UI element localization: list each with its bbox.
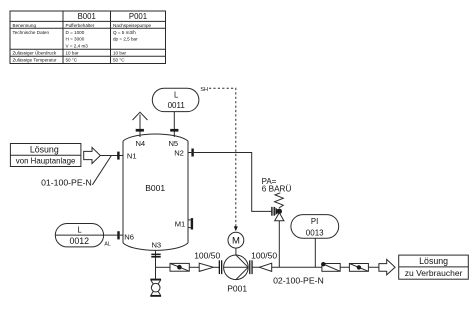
svg-text:0011: 0011	[168, 101, 186, 110]
svg-text:B001: B001	[145, 183, 165, 193]
svg-text:10 bar: 10 bar	[66, 51, 79, 56]
svg-text:01-100-PE-N: 01-100-PE-N	[41, 177, 92, 187]
svg-text:100/50: 100/50	[251, 251, 277, 261]
svg-text:B001: B001	[78, 12, 96, 21]
svg-text:50 °C: 50 °C	[113, 58, 125, 63]
svg-text:N5: N5	[168, 139, 178, 148]
svg-text:AL: AL	[104, 242, 110, 248]
svg-text:Lösung: Lösung	[30, 145, 59, 155]
svg-text:PI: PI	[311, 217, 318, 226]
svg-text:N2: N2	[174, 149, 184, 158]
svg-text:L: L	[174, 91, 179, 100]
svg-text:Pufferbehälter: Pufferbehälter	[66, 23, 95, 28]
svg-text:Technische Daten: Technische Daten	[13, 30, 50, 35]
svg-text:100/50: 100/50	[194, 251, 220, 261]
svg-text:M: M	[232, 236, 240, 247]
svg-text:N6: N6	[124, 233, 134, 242]
svg-text:Q = 5 m3/h: Q = 5 m3/h	[113, 30, 136, 35]
svg-text:SH: SH	[200, 87, 208, 93]
svg-text:Zulässiger Überdruck: Zulässiger Überdruck	[13, 50, 57, 56]
svg-text:Lösung: Lösung	[419, 256, 448, 266]
svg-text:0013: 0013	[306, 228, 324, 237]
svg-text:0012: 0012	[70, 236, 90, 246]
svg-text:N1: N1	[127, 152, 137, 161]
svg-text:Benennung: Benennung	[13, 23, 37, 28]
svg-text:von Hauptanlage: von Hauptanlage	[16, 157, 76, 166]
svg-text:M1: M1	[175, 219, 186, 228]
svg-text:50 °C: 50 °C	[66, 58, 78, 63]
svg-text:P001: P001	[227, 283, 247, 293]
svg-text:10 bar: 10 bar	[113, 51, 126, 56]
svg-text:Nachspeisepumpe: Nachspeisepumpe	[113, 23, 151, 28]
svg-text:02-100-PE-N: 02-100-PE-N	[273, 275, 324, 285]
svg-text:Zulässige Temperatur: Zulässige Temperatur	[13, 58, 58, 63]
svg-text:zu Verbraucher: zu Verbraucher	[405, 268, 463, 278]
svg-text:dp = 2,5 bar: dp = 2,5 bar	[113, 37, 138, 42]
svg-text:D = 1000: D = 1000	[66, 30, 85, 35]
svg-text:H = 3000: H = 3000	[66, 37, 85, 42]
svg-text:N4: N4	[135, 139, 145, 148]
svg-text:L: L	[77, 226, 82, 235]
svg-text:P001: P001	[129, 12, 147, 21]
svg-text:N3: N3	[151, 241, 161, 250]
svg-text:V = 2,4 m3: V = 2,4 m3	[66, 44, 89, 49]
svg-text:6 BARÜ: 6 BARÜ	[262, 183, 292, 193]
